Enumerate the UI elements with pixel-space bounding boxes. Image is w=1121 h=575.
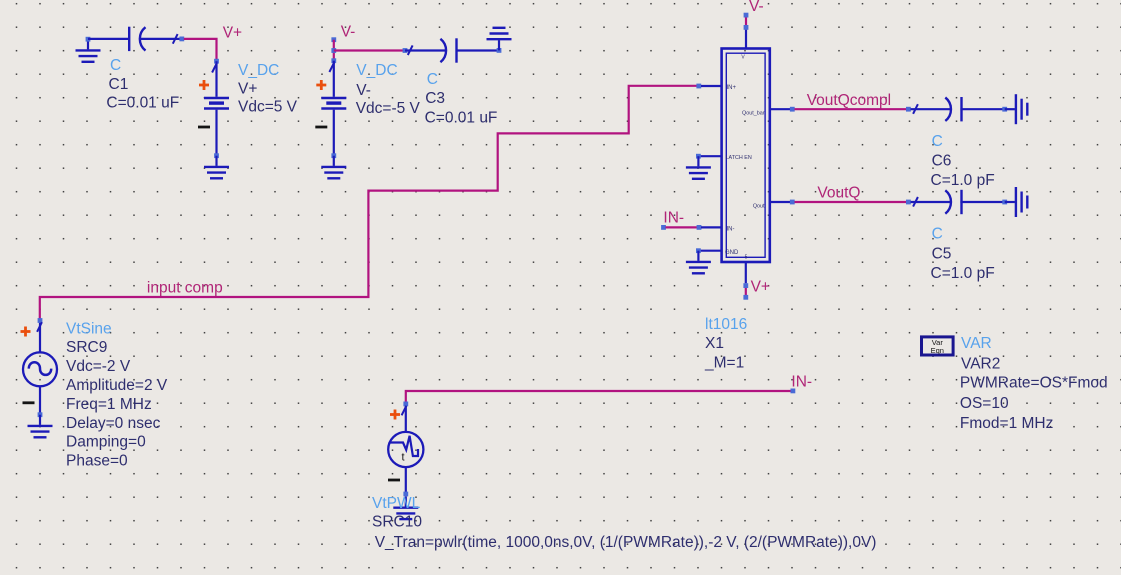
wire pin LATCH EN xyxy=(698,155,721,157)
equation block VAR2 xyxy=(922,337,954,355)
svg-text:C: C xyxy=(110,57,121,74)
svg-text:V-: V- xyxy=(341,24,356,41)
svg-text:Eqn: Eqn xyxy=(931,346,944,355)
node xyxy=(696,84,701,89)
ground xyxy=(1005,94,1028,124)
ground xyxy=(1005,187,1028,217)
node xyxy=(331,58,336,63)
svg-text:Damping=0: Damping=0 xyxy=(66,434,146,451)
wire pin GND xyxy=(698,250,721,252)
svg-text:C6: C6 xyxy=(932,153,952,170)
ground xyxy=(686,251,711,274)
capacitor C5 value labels xyxy=(931,226,995,282)
capacitor C3 value labels xyxy=(425,71,498,126)
svg-text:PWMRate=OS*Fmod: PWMRate=OS*Fmod xyxy=(960,375,1108,392)
wire pin IN- xyxy=(701,226,722,228)
capacitor C1 value labels xyxy=(106,57,179,112)
node xyxy=(403,402,408,407)
node xyxy=(331,48,336,53)
node xyxy=(906,200,911,205)
node xyxy=(331,37,336,42)
svg-text:C: C xyxy=(932,226,943,243)
voltage source SRC2 labels xyxy=(356,62,421,117)
node xyxy=(697,225,702,230)
node xyxy=(331,153,336,158)
svg-text:Qout_bar: Qout_bar xyxy=(742,111,765,117)
node xyxy=(790,200,795,205)
node xyxy=(38,412,43,417)
wire net VoutQcompl xyxy=(795,108,909,110)
svg-text:lt1016: lt1016 xyxy=(705,316,747,333)
svg-text:Vdc=-2 V: Vdc=-2 V xyxy=(66,358,131,375)
ground xyxy=(686,156,711,179)
node xyxy=(1002,107,1007,112)
equation block labels xyxy=(960,335,1108,432)
svg-text:IN-: IN- xyxy=(791,374,812,391)
capacitor C6 value labels xyxy=(931,133,995,189)
svg-text:Phase=0: Phase=0 xyxy=(66,453,128,470)
svg-text:VtPWL: VtPWL xyxy=(372,495,421,512)
ground xyxy=(321,156,346,179)
svg-text:VoutQcompl: VoutQcompl xyxy=(807,92,891,109)
svg-text:input comp: input comp xyxy=(147,280,223,297)
svg-text:VtSine: VtSine xyxy=(66,320,112,337)
svg-text:SRC9: SRC9 xyxy=(66,339,107,356)
source SRC10 labels xyxy=(372,495,876,551)
wire net IN- xyxy=(666,226,698,228)
source SRC9 labels xyxy=(66,320,168,469)
svg-text:C3: C3 xyxy=(425,90,445,107)
wire net V- xyxy=(333,40,335,61)
svg-text:IN-: IN- xyxy=(663,210,684,227)
source SRC10 VtPWL xyxy=(388,406,423,494)
node xyxy=(403,492,408,497)
svg-text:V_DC: V_DC xyxy=(238,62,279,79)
svg-text:C=1.0 pF: C=1.0 pF xyxy=(931,265,995,282)
wire net VoutQ xyxy=(795,201,909,203)
node xyxy=(743,283,748,288)
node xyxy=(696,154,701,159)
wire pin V- xyxy=(745,30,747,49)
svg-text:_M=1: _M=1 xyxy=(704,355,744,372)
wire pin IN+ xyxy=(701,85,722,87)
ground xyxy=(204,156,229,179)
svg-text:Freq=1 MHz: Freq=1 MHz xyxy=(66,396,152,413)
wire pin Qout xyxy=(770,201,790,203)
svg-text:V+: V+ xyxy=(238,81,257,98)
svg-text:VAR: VAR xyxy=(961,335,992,352)
comparator U1 lt1016 body xyxy=(722,49,770,263)
source SRC9 VtSine xyxy=(21,322,58,415)
node xyxy=(661,225,666,230)
node xyxy=(744,25,749,30)
capacitor C1 xyxy=(128,27,182,51)
svg-text:V_Tran=pwlr(time, 1000,0ns,0V,: V_Tran=pwlr(time, 1000,0ns,0V, (1/(PWMRa… xyxy=(375,534,877,551)
wire pin V+ xyxy=(745,262,747,283)
ground xyxy=(76,39,101,62)
wire net IN- xyxy=(406,391,791,404)
node xyxy=(214,59,219,64)
node xyxy=(38,318,43,323)
svg-text:VoutQ: VoutQ xyxy=(817,185,860,202)
comparator labels xyxy=(704,316,747,372)
voltage source SRC1 V_DC xyxy=(198,61,229,156)
node xyxy=(214,153,219,158)
svg-text:Vdc=-5 V: Vdc=-5 V xyxy=(356,100,421,117)
svg-text:OS=10: OS=10 xyxy=(960,395,1009,412)
svg-text:GND: GND xyxy=(725,250,739,256)
wire net input comp xyxy=(40,86,697,321)
svg-text:V-: V- xyxy=(749,0,764,15)
wire net V+ xyxy=(745,288,747,295)
ground xyxy=(393,497,418,520)
svg-text:C: C xyxy=(932,133,943,150)
svg-text:C=0.01 uF: C=0.01 uF xyxy=(106,95,179,112)
svg-text:C=0.01 uF: C=0.01 uF xyxy=(425,109,498,126)
svg-text:VAR2: VAR2 xyxy=(961,355,1000,372)
wire net V- xyxy=(745,18,747,26)
svg-text:t: t xyxy=(402,452,405,464)
svg-text:Amplitude=2 V: Amplitude=2 V xyxy=(66,377,168,394)
node xyxy=(791,389,796,394)
svg-text:X1: X1 xyxy=(705,335,724,352)
capacitor C3 xyxy=(405,38,458,62)
voltage source SRC1 labels xyxy=(238,62,298,116)
node xyxy=(743,295,748,300)
svg-text:C5: C5 xyxy=(932,245,952,262)
svg-text:Delay=0 nsec: Delay=0 nsec xyxy=(66,415,161,432)
svg-text:C1: C1 xyxy=(109,76,129,93)
node xyxy=(179,37,184,42)
svg-text:V+: V+ xyxy=(751,279,770,296)
svg-text:Vdc=5 V: Vdc=5 V xyxy=(238,99,298,116)
svg-text:IN+: IN+ xyxy=(727,85,737,91)
svg-text:V_DC: V_DC xyxy=(356,62,397,79)
node xyxy=(906,107,911,112)
capacitor C6 xyxy=(911,97,962,121)
ground xyxy=(487,28,512,51)
node xyxy=(790,107,795,112)
wire pin Qout_bar xyxy=(770,108,790,110)
svg-text:5: 5 xyxy=(745,255,748,261)
wire xyxy=(88,38,128,40)
svg-text:LATCH EN: LATCH EN xyxy=(726,155,752,161)
node xyxy=(403,48,408,53)
node xyxy=(744,13,749,18)
node xyxy=(86,37,91,42)
voltage source SRC2 V_DC xyxy=(315,61,346,156)
svg-text:SRC10: SRC10 xyxy=(372,514,422,531)
svg-text:C=1.0 pF: C=1.0 pF xyxy=(931,172,995,189)
wire net V+ xyxy=(184,39,217,60)
svg-text:Qout: Qout xyxy=(753,204,765,210)
node xyxy=(696,248,701,253)
node xyxy=(497,48,502,53)
svg-text:C: C xyxy=(427,71,438,88)
ground xyxy=(28,415,53,438)
svg-text:V+: V+ xyxy=(223,24,242,41)
node xyxy=(1002,200,1007,205)
svg-text:Fmod=1 MHz: Fmod=1 MHz xyxy=(960,415,1053,432)
capacitor C5 xyxy=(911,190,962,214)
svg-text:V-: V- xyxy=(356,82,371,99)
svg-text:IN-: IN- xyxy=(727,227,735,233)
wire net V- xyxy=(334,49,403,51)
